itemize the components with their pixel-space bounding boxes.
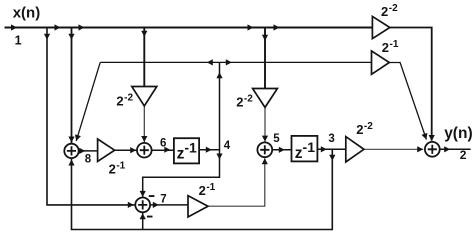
svg-text:5: 5	[273, 133, 280, 145]
svg-text:7: 7	[160, 193, 166, 205]
svg-text:x(n): x(n)	[13, 5, 41, 22]
svg-text:1: 1	[15, 34, 22, 48]
svg-text:6: 6	[160, 137, 166, 149]
svg-text:3: 3	[328, 133, 334, 145]
svg-text:y(n): y(n)	[444, 125, 472, 142]
svg-text:4: 4	[224, 140, 231, 152]
svg-text:8: 8	[85, 153, 92, 165]
svg-text:2: 2	[460, 148, 467, 162]
